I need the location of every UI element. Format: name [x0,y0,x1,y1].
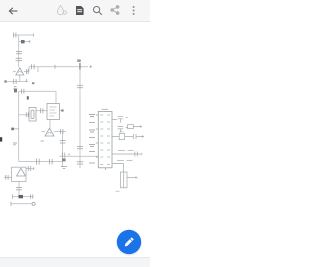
wire below speaker [18,182,20,197]
U1 inner pin labels right [107,115,110,165]
label P1 dark [27,96,29,99]
resistor R1 dark [21,40,25,43]
search icon [94,7,102,15]
U1 bottom stub [105,168,107,170]
wire relay feed [19,114,29,116]
ground bar below node [61,167,67,169]
capacitor C6 main line [32,64,34,69]
document icon [76,6,84,15]
wire module to mic [49,120,51,129]
wire bottom row right [59,155,98,157]
label blob x33 [32,82,34,84]
wire left vertical long [18,91,20,161]
wire into module top [55,91,57,103]
capacitor C19 below speaker [16,188,22,190]
toolbar background [0,0,150,21]
wire node column [62,152,64,167]
capacitor C7 row y91.3 [21,89,24,94]
capacitor C15 bottom row [50,159,53,164]
wire pin right r1 [112,119,117,121]
wire speaker cap stub [26,168,34,170]
tick right [33,167,35,170]
switch row left bar [10,202,12,206]
wire speaker terminal [4,176,12,178]
crystal X1 [119,134,124,140]
capacitor C12 [60,141,66,143]
pencil icon [124,237,134,247]
capacitor C23 [135,152,137,157]
wire right vertical long [79,67,81,168]
capacitor C9 [40,108,43,113]
overflow menu icon [133,6,135,15]
capacitor C16 on left vertical [77,162,83,164]
capacitor C3 [16,58,22,60]
wire module pin right [60,110,63,112]
capacitor C22 [134,134,136,139]
label tick [126,126,128,128]
label P2 dark [14,89,17,92]
U1 top label [102,108,109,110]
wire C24 right lead [127,177,135,179]
cap C13 polarized body [62,158,66,161]
microphone MK1 [45,128,54,136]
capacitor C17 [28,166,31,171]
wire battery row [13,196,34,198]
wire row y79.5 [6,81,28,83]
wire triangle leads [13,67,29,72]
wire mic leads [42,131,58,133]
wire switch row [11,203,32,205]
module U2 box [47,104,60,120]
wire left vertical upper [18,35,20,67]
capacitor C5 row y79.5 [14,79,16,84]
U1 inner pin labels left [100,115,103,165]
speaker LS1 box [12,167,26,181]
share icon [111,6,119,15]
capacitor C14 bottom row [37,159,40,165]
transducer BZ1 [16,68,24,75]
wire pin right r3 [112,136,119,138]
terminal cross [135,176,138,179]
wire right long row [112,153,141,155]
capacitor C1 [13,33,16,38]
switch contact circle [32,202,35,205]
terminal tick [141,153,143,155]
FAB edit button [117,230,141,254]
terminal blob row81 [4,80,6,83]
label C text [13,142,17,145]
tick row y79.5 [13,79,26,88]
toolbar divider [0,21,150,22]
wire relay to module [36,110,47,112]
page background [0,0,150,267]
wire below transducer [19,75,21,82]
relay K1 box [29,108,36,122]
U1 left external labels [89,115,95,117]
wire top row 1 [13,34,34,36]
battery B1 dark [19,195,24,198]
wire mic cap stub [58,131,67,133]
wire bottom row left [19,161,63,163]
capacitor C13 bars [62,153,64,158]
terminal cross [142,135,145,138]
speaker LS1 cone [17,168,26,176]
wire mic column vertical [62,132,64,153]
U2 inner text [50,107,57,116]
K1 inner slot [31,110,34,119]
module pin tick dark [61,109,63,111]
terminal tick right end [90,65,93,68]
back arrow icon [9,8,17,14]
U1 left pin stubs [96,115,99,157]
bottom bar divider [0,257,150,258]
arrow mark on left vertical [11,128,14,131]
wire vertical x38 [37,67,39,72]
capacitor C18 terminal [6,175,8,180]
bottom bar [0,258,150,267]
label tick [126,116,128,118]
darker small parts [0,40,81,198]
ink drop icon [58,6,67,15]
labels above right row [118,150,134,152]
X1 label [120,131,124,133]
tick right of C13 [68,153,70,155]
wire main top horizontal [29,66,88,68]
capacitor C8 relay feed [26,112,28,117]
capacitor C2 [16,51,22,53]
capacitor C11 [60,129,63,134]
wire X1 right [125,136,133,138]
wire to tick [136,136,142,138]
terminal tick row2 [29,40,31,43]
node junction dark x80 [79,63,80,70]
wire mark lines next to arrow [14,128,19,130]
battery row left bar [12,194,14,198]
wire pin to cap C24 [112,164,124,173]
tick x55 [54,65,56,69]
capacitor C4 on lead [27,69,29,74]
capacitor C20 [118,116,124,122]
FAB shadow [116,230,142,256]
wire row y91.3 [19,90,56,92]
label below C24 [116,190,120,192]
label Cs text [41,140,45,143]
terminal tick row1 [32,34,34,37]
op-amp U1 body [98,112,112,168]
capacitor C21 [118,126,124,132]
wire top row 2 [19,41,30,43]
page letter B [0,137,2,141]
labels above [117,159,133,161]
capacitor C16b on right vertical [77,146,83,148]
capacitor C24 electrolytic [120,172,127,188]
resistor R2 [128,125,134,129]
battery row right bars [30,194,32,198]
capacitor C10 on right vertical [77,85,83,87]
